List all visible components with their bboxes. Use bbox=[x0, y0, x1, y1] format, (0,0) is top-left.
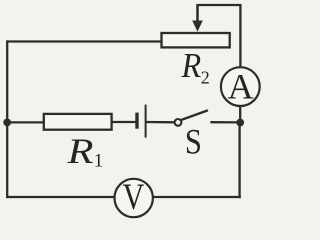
switch lever bbox=[181, 111, 207, 120]
wire top-left horizontal bbox=[7, 40, 161, 42]
wire switch to junction bbox=[212, 121, 241, 124]
wire battery to switch bbox=[147, 121, 175, 124]
junction node right bbox=[236, 119, 244, 127]
svg-text:2: 2 bbox=[201, 68, 210, 88]
wire bottom-left bbox=[7, 196, 114, 198]
junction node left bbox=[3, 119, 11, 127]
battery negative short plate bbox=[135, 113, 138, 129]
svg-text:V: V bbox=[123, 177, 145, 217]
wire slider top bbox=[198, 5, 241, 67]
resistor R1 bbox=[44, 114, 112, 130]
wire R1 to battery bbox=[112, 121, 136, 123]
wire left vertical bbox=[6, 42, 8, 198]
wire middle left bbox=[7, 121, 44, 123]
label R1 bbox=[66, 131, 103, 172]
voltmeter V bbox=[115, 177, 153, 217]
rheostat R2 bbox=[162, 33, 230, 47]
ammeter A bbox=[221, 66, 260, 106]
wire right vertical lower bbox=[238, 123, 240, 198]
wire bottom-right bbox=[153, 196, 240, 198]
wire ammeter to junction bbox=[239, 106, 241, 122]
svg-text:R: R bbox=[66, 131, 93, 171]
svg-text:R: R bbox=[181, 47, 202, 86]
svg-text:1: 1 bbox=[94, 151, 104, 172]
label R2 bbox=[181, 47, 210, 88]
switch S pivot bbox=[175, 119, 182, 126]
battery positive long plate bbox=[145, 105, 147, 138]
rheostat slider arrow bbox=[192, 5, 203, 32]
svg-text:S: S bbox=[185, 122, 202, 162]
svg-text:A: A bbox=[228, 66, 254, 106]
